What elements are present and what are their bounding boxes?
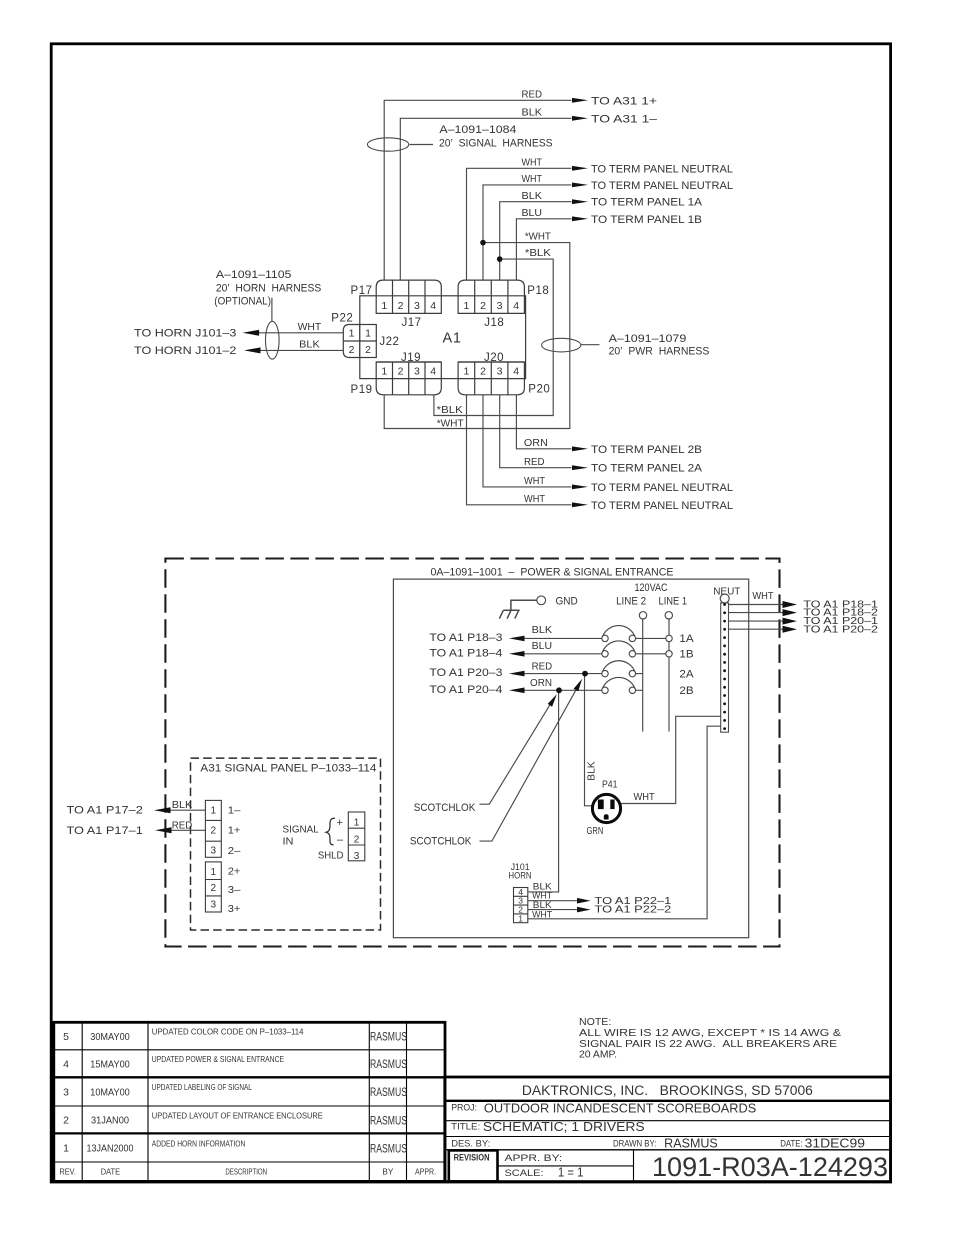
svg-text:TO HORN J101–2: TO HORN J101–2 bbox=[134, 345, 236, 357]
svg-text:2: 2 bbox=[63, 1115, 69, 1127]
svg-text:ALL WIRE IS 12 AWG, EXCEPT * I: ALL WIRE IS 12 AWG, EXCEPT * IS 14 AWG & bbox=[579, 1028, 841, 1039]
svg-text:1: 1 bbox=[381, 366, 387, 378]
svg-text:DATE: DATE bbox=[101, 1167, 121, 1177]
svg-text:RED: RED bbox=[522, 89, 543, 101]
svg-text:2–: 2– bbox=[228, 845, 241, 857]
svg-text:TO TERM PANEL 2A: TO TERM PANEL 2A bbox=[591, 463, 703, 475]
svg-text:SHLD: SHLD bbox=[318, 850, 344, 862]
svg-text:13JAN2000: 13JAN2000 bbox=[87, 1143, 134, 1155]
svg-text:(OPTIONAL): (OPTIONAL) bbox=[214, 296, 271, 308]
svg-text:3: 3 bbox=[497, 366, 503, 378]
svg-text:ADDED HORN INFORMATION: ADDED HORN INFORMATION bbox=[152, 1138, 246, 1148]
svg-text:+: + bbox=[337, 817, 343, 829]
svg-text:TO A31 1+: TO A31 1+ bbox=[591, 95, 657, 107]
svg-text:5: 5 bbox=[63, 1031, 69, 1043]
svg-text:TITLE:: TITLE: bbox=[451, 1122, 480, 1133]
svg-text:1091-R03A-124293: 1091-R03A-124293 bbox=[652, 1152, 888, 1182]
svg-text:TO TERM PANEL NEUTRAL: TO TERM PANEL NEUTRAL bbox=[591, 180, 733, 192]
svg-text:NEUT: NEUT bbox=[713, 586, 741, 598]
svg-text:TO A1 P20–3: TO A1 P20–3 bbox=[429, 667, 502, 679]
svg-text:REVISION: REVISION bbox=[454, 1152, 490, 1162]
svg-text:3–: 3– bbox=[228, 884, 241, 896]
svg-text:2: 2 bbox=[211, 883, 217, 894]
svg-text:OUTDOOR INCANDESCENT SCOREBOAR: OUTDOOR INCANDESCENT SCOREBOARDS bbox=[484, 1101, 757, 1116]
svg-text:–: – bbox=[337, 834, 344, 846]
svg-text:2A: 2A bbox=[679, 668, 694, 680]
svg-text:2B: 2B bbox=[679, 685, 693, 697]
svg-text:31JAN00: 31JAN00 bbox=[91, 1115, 129, 1127]
svg-text:UPDATED POWER & SIGNAL ENTRANC: UPDATED POWER & SIGNAL ENTRANCE bbox=[152, 1054, 285, 1064]
svg-text:0A–1091–1001 – POWER & SIGNA: 0A–1091–1001 – POWER & SIGNAL ENTRANCE bbox=[431, 567, 674, 579]
svg-text:ORN: ORN bbox=[524, 437, 548, 449]
svg-text:4: 4 bbox=[513, 366, 519, 378]
svg-text:2: 2 bbox=[349, 344, 355, 356]
svg-text:P41: P41 bbox=[602, 779, 618, 790]
svg-text:RASMUS: RASMUS bbox=[370, 1115, 407, 1127]
svg-text:2: 2 bbox=[398, 366, 404, 378]
svg-text:10MAY00: 10MAY00 bbox=[90, 1087, 130, 1099]
svg-text:SCHEMATIC; 1 DRIVERS: SCHEMATIC; 1 DRIVERS bbox=[483, 1119, 645, 1134]
svg-text:1: 1 bbox=[463, 300, 469, 312]
svg-text:30MAY00: 30MAY00 bbox=[90, 1031, 130, 1043]
svg-text:3: 3 bbox=[497, 300, 503, 312]
svg-text:WHT: WHT bbox=[522, 173, 543, 185]
svg-text:BLU: BLU bbox=[522, 207, 543, 219]
svg-text:APPR. BY:: APPR. BY: bbox=[505, 1153, 563, 1164]
svg-text:BLK: BLK bbox=[522, 107, 543, 119]
svg-text:3: 3 bbox=[211, 846, 217, 857]
svg-text:15MAY00: 15MAY00 bbox=[90, 1059, 130, 1071]
svg-text:P18: P18 bbox=[527, 285, 549, 297]
svg-text:GRN: GRN bbox=[587, 826, 604, 837]
svg-text:UPDATED LABELING OF SIGNAL: UPDATED LABELING OF SIGNAL bbox=[152, 1082, 252, 1092]
svg-text:ORN: ORN bbox=[530, 677, 552, 689]
svg-text:BY: BY bbox=[382, 1167, 393, 1177]
svg-text:TO A1 P18–4: TO A1 P18–4 bbox=[429, 647, 502, 659]
svg-text:4: 4 bbox=[63, 1059, 69, 1071]
svg-text:1–: 1– bbox=[228, 804, 241, 816]
svg-text:1: 1 bbox=[381, 300, 387, 312]
svg-text:1: 1 bbox=[463, 366, 469, 378]
svg-text:1: 1 bbox=[211, 806, 217, 817]
svg-text:2: 2 bbox=[398, 300, 404, 312]
svg-text:A–1091–1105: A–1091–1105 bbox=[216, 269, 292, 281]
svg-text:3: 3 bbox=[354, 851, 360, 862]
svg-text:1: 1 bbox=[211, 867, 217, 878]
svg-text:BLK: BLK bbox=[172, 799, 193, 811]
svg-text:3: 3 bbox=[63, 1087, 69, 1099]
svg-text:TO A31 1–: TO A31 1– bbox=[591, 113, 658, 125]
svg-text:SIGNAL: SIGNAL bbox=[283, 824, 319, 836]
svg-text:1: 1 bbox=[518, 913, 523, 923]
svg-text:*WHT: *WHT bbox=[437, 417, 465, 429]
svg-text:RED: RED bbox=[172, 820, 193, 832]
svg-text:120VAC: 120VAC bbox=[635, 582, 668, 594]
svg-text:P19: P19 bbox=[351, 384, 373, 396]
svg-text:SIGNAL PAIR IS 22 AWG. ALL BR: SIGNAL PAIR IS 22 AWG. ALL BREAKERS ARE bbox=[579, 1039, 837, 1050]
svg-text:NOTE:: NOTE: bbox=[579, 1017, 611, 1028]
svg-text:BLK: BLK bbox=[522, 190, 543, 202]
svg-text:HORN: HORN bbox=[508, 871, 531, 881]
svg-text:*BLK: *BLK bbox=[525, 247, 551, 259]
svg-text:PROJ:: PROJ: bbox=[451, 1102, 477, 1113]
svg-text:DESCRIPTION: DESCRIPTION bbox=[225, 1167, 267, 1177]
svg-text:2: 2 bbox=[354, 834, 360, 845]
svg-text:TO A1 P20–4: TO A1 P20–4 bbox=[429, 684, 502, 696]
svg-text:J20: J20 bbox=[484, 352, 504, 364]
svg-text:2+: 2+ bbox=[228, 866, 241, 878]
svg-text:J17: J17 bbox=[402, 317, 422, 329]
svg-text:2: 2 bbox=[480, 366, 486, 378]
svg-text:SCOTCHLOK: SCOTCHLOK bbox=[410, 836, 472, 848]
svg-text:3: 3 bbox=[211, 900, 217, 911]
svg-text:RASMUS: RASMUS bbox=[370, 1087, 407, 1099]
svg-text:TO A1 P18–3: TO A1 P18–3 bbox=[429, 632, 502, 644]
svg-text:RED: RED bbox=[532, 660, 553, 672]
svg-text:A1: A1 bbox=[443, 330, 462, 346]
svg-text:*WHT: *WHT bbox=[525, 231, 552, 243]
svg-text:TO HORN J101–3: TO HORN J101–3 bbox=[134, 327, 236, 339]
svg-text:3+: 3+ bbox=[228, 903, 241, 915]
svg-text:BLK: BLK bbox=[586, 761, 598, 780]
svg-text:20’ PWR HARNESS: 20’ PWR HARNESS bbox=[609, 346, 710, 358]
svg-text:GND: GND bbox=[556, 596, 578, 608]
svg-text:DATE:: DATE: bbox=[780, 1138, 802, 1149]
svg-text:TO A1 P22–2: TO A1 P22–2 bbox=[595, 905, 672, 916]
svg-text:UPDATED LAYOUT OF ENTRANCE ENC: UPDATED LAYOUT OF ENTRANCE ENCLOSURE bbox=[152, 1110, 323, 1120]
svg-text:2: 2 bbox=[480, 300, 486, 312]
svg-text:SCALE:: SCALE: bbox=[505, 1168, 544, 1179]
svg-text:20’ HORN HARNESS: 20’ HORN HARNESS bbox=[216, 282, 321, 294]
svg-text:TO A1 P17–1: TO A1 P17–1 bbox=[67, 825, 143, 837]
svg-text:1 = 1: 1 = 1 bbox=[558, 1166, 584, 1180]
svg-text:TO TERM PANEL NEUTRAL: TO TERM PANEL NEUTRAL bbox=[591, 482, 733, 494]
svg-text:WHT: WHT bbox=[524, 493, 546, 505]
svg-text:LINE 2: LINE 2 bbox=[616, 595, 646, 607]
svg-text:TO A1 P20–2: TO A1 P20–2 bbox=[803, 624, 878, 635]
svg-text:20 AMP.: 20 AMP. bbox=[579, 1050, 617, 1061]
svg-text:J18: J18 bbox=[484, 317, 504, 329]
svg-text:1A: 1A bbox=[679, 633, 694, 645]
svg-text:3: 3 bbox=[414, 300, 420, 312]
svg-text:DRAWN BY:: DRAWN BY: bbox=[613, 1138, 656, 1149]
svg-text:APPR.: APPR. bbox=[415, 1167, 436, 1177]
svg-text:BLK: BLK bbox=[532, 624, 553, 636]
svg-text:RASMUS: RASMUS bbox=[370, 1032, 407, 1044]
svg-text:SCOTCHLOK: SCOTCHLOK bbox=[414, 802, 476, 814]
svg-text:P22: P22 bbox=[331, 312, 353, 324]
svg-text:TO TERM PANEL 1B: TO TERM PANEL 1B bbox=[591, 214, 702, 226]
svg-text:WHT: WHT bbox=[532, 910, 552, 921]
svg-text:1: 1 bbox=[349, 328, 355, 340]
svg-text:20’ SIGNAL HARNESS: 20’ SIGNAL HARNESS bbox=[439, 137, 553, 149]
svg-text:WHT: WHT bbox=[524, 475, 546, 487]
svg-text:RASMUS: RASMUS bbox=[370, 1059, 407, 1071]
svg-text:A31 SIGNAL PANEL P–1033–114: A31 SIGNAL PANEL P–1033–114 bbox=[200, 763, 376, 775]
svg-text:2: 2 bbox=[365, 344, 371, 356]
svg-text:*BLK: *BLK bbox=[437, 404, 463, 416]
svg-text:TO TERM PANEL NEUTRAL: TO TERM PANEL NEUTRAL bbox=[591, 500, 733, 512]
svg-text:IN: IN bbox=[283, 836, 294, 848]
svg-text:BLK: BLK bbox=[299, 339, 320, 351]
svg-text:RASMUS: RASMUS bbox=[370, 1143, 407, 1155]
svg-text:TO TERM PANEL NEUTRAL: TO TERM PANEL NEUTRAL bbox=[591, 163, 733, 175]
svg-text:RASMUS: RASMUS bbox=[664, 1137, 718, 1151]
svg-text:4: 4 bbox=[430, 300, 436, 312]
svg-text:1B: 1B bbox=[679, 649, 693, 661]
svg-text:TO A1 P17–2: TO A1 P17–2 bbox=[67, 804, 143, 816]
svg-text:J19: J19 bbox=[401, 352, 421, 364]
svg-text:P20: P20 bbox=[528, 383, 550, 395]
svg-text:DES. BY:: DES. BY: bbox=[451, 1138, 490, 1149]
svg-text:WHT: WHT bbox=[634, 791, 656, 803]
svg-text:31DEC99: 31DEC99 bbox=[805, 1137, 865, 1151]
svg-text:RED: RED bbox=[524, 456, 545, 468]
svg-text:WHT: WHT bbox=[752, 590, 774, 602]
svg-text:UPDATED COLOR CODE ON P–1033–1: UPDATED COLOR CODE ON P–1033–114 bbox=[152, 1027, 304, 1037]
svg-text:4: 4 bbox=[430, 366, 436, 378]
svg-text:1: 1 bbox=[354, 818, 360, 829]
svg-text:REV.: REV. bbox=[60, 1167, 76, 1177]
svg-text:1+: 1+ bbox=[228, 824, 241, 836]
svg-text:A–1091–1084: A–1091–1084 bbox=[439, 124, 516, 136]
svg-text:P17: P17 bbox=[351, 285, 373, 297]
svg-text:LINE 1: LINE 1 bbox=[659, 595, 688, 607]
svg-text:A–1091–1079: A–1091–1079 bbox=[609, 333, 687, 345]
svg-text:4: 4 bbox=[513, 300, 519, 312]
svg-text:DAKTRONICS, INC. BROOKINGS,: DAKTRONICS, INC. BROOKINGS, SD 57006 bbox=[522, 1083, 813, 1098]
svg-text:1: 1 bbox=[365, 328, 371, 340]
svg-text:J22: J22 bbox=[379, 336, 399, 348]
svg-text:3: 3 bbox=[414, 366, 420, 378]
svg-text:WHT: WHT bbox=[298, 321, 322, 333]
svg-text:WHT: WHT bbox=[522, 157, 543, 169]
svg-text:TO TERM PANEL 2B: TO TERM PANEL 2B bbox=[591, 444, 702, 456]
svg-text:1: 1 bbox=[63, 1143, 69, 1155]
svg-text:TO TERM PANEL 1A: TO TERM PANEL 1A bbox=[591, 197, 703, 209]
svg-text:BLU: BLU bbox=[532, 640, 553, 652]
svg-text:2: 2 bbox=[211, 825, 217, 836]
